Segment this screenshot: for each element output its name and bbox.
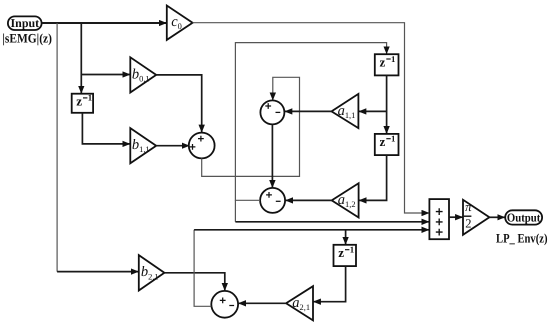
delay z^-1 block D4 [334,245,357,267]
wire: Input branch down to delay z1 [80,23,82,93]
summing junction S3 [260,188,285,213]
summation block (+ + +) [429,199,449,239]
wire: a1,1 output to S2 right [285,110,332,112]
delay z^-1 block D3 [375,134,399,156]
wire: b2,1 output to sum S4 top [164,273,224,291]
svg-text:z: z [338,245,344,260]
svg-text:Input: Input [11,16,40,30]
svg-text:z: z [380,54,386,69]
wire: S1 output routed up-over to sum S2 top [202,77,300,176]
gain b1,1 [130,128,156,163]
wire: a2,1 output to S4 right [239,302,287,304]
svg-text:1: 1 [350,245,354,255]
summing junction S4 [211,291,238,318]
svg-text:π: π [465,199,472,214]
wire: S3 output down branch [234,200,236,222]
svg-text:z: z [76,93,82,108]
gain pi/2 [463,199,489,235]
gain b2,1 [139,255,165,290]
wire: summation output to pi/2 gain [449,216,463,218]
summing junction S1 [189,133,215,159]
wire: branch into b2,1 [57,271,138,273]
wire: a1,2 output to S3 right [286,199,332,201]
output terminal oval "Output" [505,210,542,224]
gain a1,1 [332,94,359,128]
wire: branch to b0,1 [81,74,130,76]
gain b0,1 [130,57,156,92]
svg-text:2: 2 [465,216,471,230]
wire: S3 output to summation block (middle input) [235,221,429,223]
wire: D3 output down-left to a1,2 [359,155,387,200]
svg-text:Output: Output [507,211,541,225]
input terminal oval "Input" [8,16,42,30]
delay z^-1 block D1 [72,93,93,113]
wire: b1,1 output to sum S1 left [156,145,189,147]
gain a1,2 [332,183,359,217]
wire: D1 output to b1,1 [82,113,129,144]
svg-text:LP_ Env(z): LP_ Env(z) [496,231,548,246]
svg-text:1: 1 [391,54,395,64]
svg-text:1: 1 [391,134,395,144]
svg-text:1: 1 [88,93,92,103]
wire: S4 output to summation block (bottom input) [194,229,429,231]
wire: S4 output left then up [194,230,211,306]
wire: S3 output left then up to delay D2 input [235,43,386,201]
wire: branch down into delay D4 [345,230,347,245]
wire: D4 output down-left to a2,1 [314,266,346,302]
wire: pi/2 output to Output oval [489,216,504,218]
delay z^-1 block D2 [375,54,399,76]
wire: D2 output down to delay D3 [386,75,388,133]
wire: Input to c0 amplifier [42,22,167,24]
gain a2,1 [286,286,313,320]
svg-text:|sEMG|(z): |sEMG|(z) [2,31,52,46]
wire: c0 output to summation block (top input) [193,23,429,213]
wire: S2 output down to sum S3 [271,124,273,187]
wire: Input branch down (vertical) [56,23,58,272]
gain c0 [167,6,193,40]
summing junction S2 [260,100,284,124]
wire: b0,1 output to sum S1 top [156,75,202,132]
svg-text:z: z [380,134,386,149]
wire: branch to a1,1 [359,110,387,112]
